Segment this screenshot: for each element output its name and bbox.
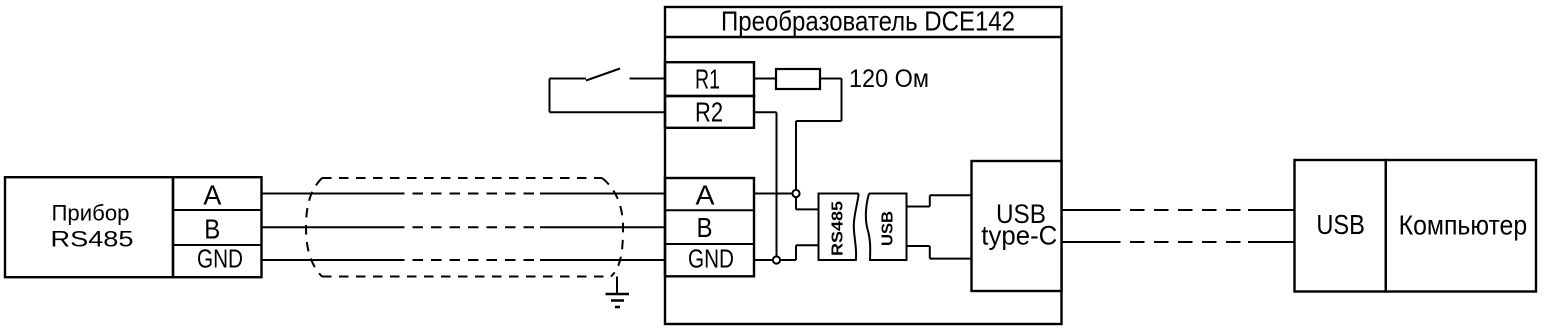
svg-text:Компьютер: Компьютер (1399, 209, 1528, 240)
wire GND to RS485 transceiver (754, 245, 819, 260)
svg-text:USB: USB (1316, 209, 1365, 240)
wire GND device to converter (262, 259, 666, 261)
svg-text:Преобразователь DCE142: Преобразователь DCE142 (721, 6, 1015, 37)
svg-text:A: A (696, 180, 715, 211)
USB interface block (break symbol) (866, 194, 907, 261)
wire R1 to resistor (754, 78, 776, 80)
svg-text:B: B (697, 212, 713, 243)
svg-text:USB: USB (880, 211, 897, 246)
wire A device to converter (262, 193, 666, 195)
USB type-C connector box (972, 161, 1062, 291)
converter box Преобразователь DCE142 (665, 6, 1062, 325)
terminal R1 (665, 62, 754, 96)
wire A to RS485 transceiver (754, 194, 819, 210)
node A (junction circle) (792, 190, 799, 197)
terminal R2 (665, 96, 754, 128)
svg-text:GND: GND (688, 244, 734, 274)
computer box Компьютер (1386, 160, 1536, 292)
switch S1 (termination jumper) (550, 69, 666, 113)
terminal block of device (A,B,GND) (173, 177, 262, 277)
wire resistor to node A (796, 79, 842, 190)
device box Прибор RS485 (5, 177, 173, 277)
wire USB block to USB type-C (top) (907, 195, 972, 206)
svg-text:B: B (204, 214, 220, 245)
terminal block of converter (A,B,GND) (665, 178, 754, 276)
wire R2 to node GND (754, 112, 777, 256)
svg-text:type-C: type-C (981, 221, 1057, 251)
svg-text:R2: R2 (695, 97, 723, 128)
USB port box (computer side) (1295, 160, 1386, 292)
wire USB block to USB type-C (bottom) (907, 246, 972, 259)
svg-text:GND: GND (197, 244, 243, 274)
resistor 120 Ом (776, 65, 929, 93)
svg-text:RS485: RS485 (51, 227, 134, 252)
USB cable wire (top) (1062, 209, 1295, 211)
svg-text:RS485: RS485 (830, 201, 847, 256)
svg-text:A: A (203, 179, 221, 210)
svg-text:120 Ом: 120 Ом (849, 65, 929, 93)
USB cable wire (bottom) (1062, 241, 1295, 243)
svg-text:Прибор: Прибор (52, 200, 130, 225)
wire B device to converter (262, 226, 666, 228)
cable shield (dashed stadium) (306, 178, 623, 277)
RS485 interface block (break symbol) (819, 194, 859, 261)
node GND (junction circle) (773, 256, 780, 263)
ground (606, 277, 630, 308)
svg-text:R1: R1 (695, 63, 720, 94)
